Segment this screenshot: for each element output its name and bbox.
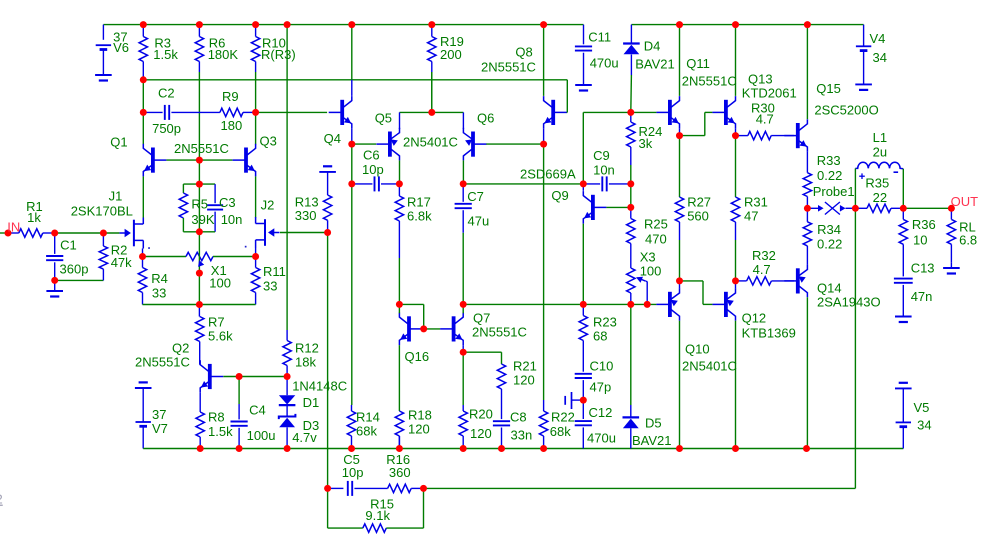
svg-text:R22: R22 bbox=[551, 410, 575, 425]
svg-text:560: 560 bbox=[687, 209, 709, 224]
svg-text:4.7: 4.7 bbox=[756, 112, 774, 127]
svg-text:C7: C7 bbox=[467, 189, 484, 204]
svg-text:V5: V5 bbox=[914, 400, 930, 415]
svg-text:D4: D4 bbox=[644, 39, 661, 54]
svg-text:R13: R13 bbox=[295, 194, 319, 209]
svg-text:180K: 180K bbox=[208, 47, 239, 62]
svg-text:2u: 2u bbox=[873, 145, 887, 160]
svg-text:33: 33 bbox=[152, 285, 166, 300]
svg-text:C11: C11 bbox=[588, 30, 611, 45]
svg-text:R34: R34 bbox=[817, 222, 841, 237]
svg-text:2N5551C: 2N5551C bbox=[174, 141, 229, 156]
svg-text:22: 22 bbox=[873, 190, 887, 205]
svg-text:Q4: Q4 bbox=[324, 131, 341, 146]
svg-text:37: 37 bbox=[152, 407, 166, 422]
svg-text:R5: R5 bbox=[191, 197, 208, 212]
svg-text:47k: 47k bbox=[111, 255, 132, 270]
svg-text:R27: R27 bbox=[687, 195, 711, 210]
svg-text:R35: R35 bbox=[865, 176, 889, 191]
svg-text:C10: C10 bbox=[590, 359, 614, 374]
svg-text:10n: 10n bbox=[593, 163, 615, 178]
svg-text:0.22: 0.22 bbox=[817, 237, 842, 252]
svg-text:Q3: Q3 bbox=[260, 134, 277, 149]
svg-text:V7: V7 bbox=[152, 421, 168, 436]
svg-text:Q1: Q1 bbox=[110, 134, 127, 149]
svg-text:C6: C6 bbox=[363, 148, 380, 163]
svg-text:Q6: Q6 bbox=[477, 111, 494, 126]
svg-text:2N5401C: 2N5401C bbox=[682, 359, 737, 374]
svg-text:Q2: Q2 bbox=[172, 341, 189, 356]
svg-text:470u: 470u bbox=[590, 56, 619, 71]
svg-text:R33: R33 bbox=[817, 153, 841, 168]
svg-text:4.7: 4.7 bbox=[753, 262, 771, 277]
svg-text:47n: 47n bbox=[911, 289, 933, 304]
svg-text:R(R3): R(R3) bbox=[261, 47, 296, 62]
svg-text:Q8: Q8 bbox=[515, 45, 532, 60]
svg-text:L1: L1 bbox=[873, 130, 887, 145]
svg-text:BAV21: BAV21 bbox=[632, 433, 672, 448]
svg-text:6.8k: 6.8k bbox=[407, 209, 432, 224]
svg-text:J2: J2 bbox=[261, 198, 275, 213]
svg-text:1k: 1k bbox=[27, 210, 41, 225]
svg-text:R12: R12 bbox=[295, 341, 319, 356]
svg-text:4.7v: 4.7v bbox=[292, 430, 317, 445]
svg-text:R32: R32 bbox=[752, 248, 776, 263]
svg-text:34: 34 bbox=[917, 417, 931, 432]
svg-text:Q9: Q9 bbox=[551, 188, 568, 203]
svg-text:200: 200 bbox=[440, 47, 462, 62]
svg-text:120: 120 bbox=[408, 422, 430, 437]
svg-text:R11: R11 bbox=[263, 264, 286, 279]
svg-text:C4: C4 bbox=[249, 403, 266, 418]
svg-text:Q7: Q7 bbox=[473, 311, 490, 326]
svg-text:Q13: Q13 bbox=[748, 72, 773, 87]
svg-text:33: 33 bbox=[263, 279, 277, 294]
svg-text:Q10: Q10 bbox=[685, 342, 710, 357]
svg-text:R23: R23 bbox=[593, 315, 617, 330]
svg-text:C1: C1 bbox=[60, 238, 77, 253]
svg-text:68k: 68k bbox=[356, 424, 377, 439]
svg-text:1.5k: 1.5k bbox=[208, 424, 233, 439]
svg-text:2: 2 bbox=[0, 492, 3, 507]
svg-text:330: 330 bbox=[295, 208, 317, 223]
svg-text:Q15: Q15 bbox=[816, 81, 841, 96]
svg-text:R8: R8 bbox=[208, 410, 225, 425]
svg-text:D1: D1 bbox=[303, 395, 320, 410]
svg-text:33n: 33n bbox=[511, 428, 533, 443]
svg-text:D5: D5 bbox=[645, 416, 662, 431]
svg-text:R17: R17 bbox=[407, 195, 431, 210]
svg-text:47p: 47p bbox=[590, 380, 612, 395]
svg-text:Q11: Q11 bbox=[686, 56, 710, 71]
svg-text:Q12: Q12 bbox=[742, 311, 767, 326]
svg-text:C13: C13 bbox=[911, 261, 935, 276]
svg-text:1.5k: 1.5k bbox=[153, 47, 178, 62]
svg-text:68: 68 bbox=[593, 329, 607, 344]
svg-text:C8: C8 bbox=[510, 410, 527, 425]
svg-text:9.1k: 9.1k bbox=[365, 508, 390, 523]
svg-text:C3: C3 bbox=[219, 195, 236, 210]
svg-text:Q16: Q16 bbox=[405, 349, 430, 364]
svg-text:R31: R31 bbox=[744, 195, 768, 210]
svg-text:120: 120 bbox=[513, 373, 535, 388]
svg-text:10p: 10p bbox=[362, 162, 384, 177]
svg-text:10p: 10p bbox=[342, 465, 364, 480]
svg-text:X3: X3 bbox=[640, 250, 656, 265]
svg-text:1N4148C: 1N4148C bbox=[292, 379, 347, 394]
svg-text:IN: IN bbox=[7, 220, 20, 235]
svg-text:J1: J1 bbox=[109, 189, 123, 204]
svg-text:100: 100 bbox=[209, 275, 231, 290]
svg-text:R25: R25 bbox=[644, 217, 668, 232]
svg-text:100: 100 bbox=[640, 263, 662, 278]
svg-text:R18: R18 bbox=[408, 408, 432, 423]
svg-text:180: 180 bbox=[221, 118, 243, 133]
svg-text:360: 360 bbox=[389, 465, 411, 480]
svg-text:KTB1369: KTB1369 bbox=[742, 326, 796, 341]
svg-text:39K: 39K bbox=[191, 212, 214, 227]
svg-text:2SC5200O: 2SC5200O bbox=[814, 103, 878, 118]
svg-text:R36: R36 bbox=[912, 217, 936, 232]
svg-text:3k: 3k bbox=[639, 136, 653, 151]
svg-text:47: 47 bbox=[744, 209, 758, 224]
svg-text:C2: C2 bbox=[158, 86, 175, 101]
svg-text:10n: 10n bbox=[221, 212, 243, 227]
svg-text:0.22: 0.22 bbox=[817, 168, 842, 183]
svg-text:360p: 360p bbox=[60, 261, 89, 276]
svg-text:R20: R20 bbox=[469, 407, 493, 422]
svg-text:120: 120 bbox=[470, 426, 492, 441]
svg-text:Q14: Q14 bbox=[817, 281, 842, 296]
svg-text:47u: 47u bbox=[468, 214, 490, 229]
svg-text:68k: 68k bbox=[550, 424, 571, 439]
svg-text:2SD669A: 2SD669A bbox=[520, 167, 576, 182]
svg-text:5.6k: 5.6k bbox=[208, 329, 233, 344]
svg-text:Q5: Q5 bbox=[375, 111, 392, 126]
svg-text:BAV21: BAV21 bbox=[635, 57, 675, 72]
svg-text:470u: 470u bbox=[587, 431, 616, 446]
svg-text:34: 34 bbox=[873, 50, 887, 65]
svg-text:2N5551C: 2N5551C bbox=[682, 74, 737, 89]
svg-text:V4: V4 bbox=[870, 31, 886, 46]
svg-text:C12: C12 bbox=[589, 405, 613, 420]
svg-text:Probe1: Probe1 bbox=[813, 184, 855, 199]
svg-text:10: 10 bbox=[913, 232, 927, 247]
svg-text:2N5551C: 2N5551C bbox=[135, 355, 190, 370]
svg-text:R9: R9 bbox=[222, 89, 239, 104]
svg-text:2SA1943O: 2SA1943O bbox=[817, 295, 881, 310]
svg-text:V6: V6 bbox=[113, 40, 129, 55]
svg-text:100u: 100u bbox=[247, 428, 276, 443]
svg-text:R14: R14 bbox=[356, 410, 380, 425]
svg-text:2SK170BL: 2SK170BL bbox=[71, 204, 133, 219]
svg-text:R4: R4 bbox=[151, 271, 168, 286]
svg-text:750p: 750p bbox=[152, 121, 181, 136]
svg-text:R7: R7 bbox=[208, 315, 225, 330]
svg-text:C9: C9 bbox=[593, 148, 610, 163]
svg-text:KTD2061: KTD2061 bbox=[742, 85, 797, 100]
svg-text:18k: 18k bbox=[295, 355, 316, 370]
svg-text:R21: R21 bbox=[513, 359, 537, 374]
svg-text:2N5551C: 2N5551C bbox=[481, 60, 536, 75]
svg-text:6.8: 6.8 bbox=[959, 232, 977, 247]
svg-text:470: 470 bbox=[645, 232, 667, 247]
svg-text:2N5401C: 2N5401C bbox=[403, 135, 458, 150]
svg-text:2N5551C: 2N5551C bbox=[472, 325, 527, 340]
svg-text:OUT: OUT bbox=[951, 194, 979, 209]
